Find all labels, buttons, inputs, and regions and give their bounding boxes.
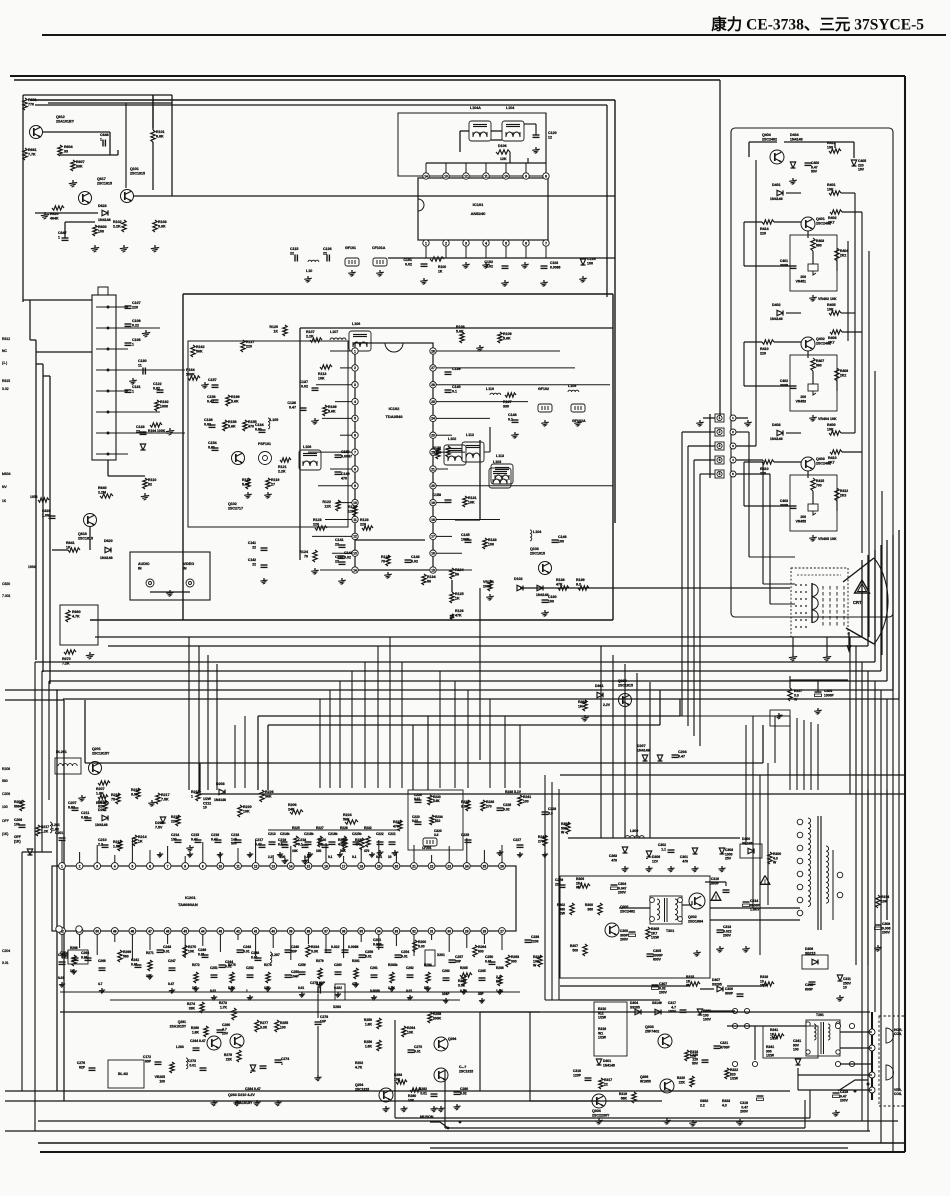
wire [36, 351, 92, 353]
capacitor C207 [72, 807, 79, 809]
node junction circles [732, 1008, 737, 1013]
svg-text:C216b: C216b [304, 832, 314, 836]
transformer T302 flyback [797, 819, 803, 825]
ground [371, 852, 373, 854]
svg-text:18: 18 [431, 518, 435, 522]
svg-text:13: 13 [444, 175, 448, 179]
wire riser x480 [479, 588, 481, 760]
svg-text:1K: 1K [455, 597, 460, 601]
svg-text:C210: C210 [98, 838, 107, 842]
ground [61, 982, 63, 984]
svg-text:4: 4 [485, 242, 487, 246]
resistor R280 [410, 1088, 421, 1092]
capacitor C244c [193, 1047, 200, 1049]
resistor R307 [583, 944, 587, 956]
wire stage box [790, 475, 837, 531]
svg-text:C262: C262 [406, 966, 414, 970]
svg-text:R122: R122 [322, 500, 331, 504]
potentiometer VR455 [808, 504, 818, 511]
svg-text:4.7K: 4.7K [72, 615, 80, 619]
wire junction links [727, 1025, 806, 1027]
ground [812, 535, 814, 537]
svg-text:3.3K: 3.3K [260, 1025, 268, 1029]
coil L104b [530, 530, 532, 541]
svg-text:1N4148: 1N4148 [100, 556, 113, 560]
capacitor C262 [407, 974, 414, 976]
svg-text:康力 CE-3738、三元 37SYCE-5: 康力 CE-3738、三元 37SYCE-5 [711, 15, 924, 34]
node dots [447, 1127, 450, 1130]
diode D103 [542, 586, 544, 591]
svg-text:28: 28 [483, 929, 487, 933]
svg-text:IC201: IC201 [185, 895, 196, 900]
svg-text:300P: 300P [780, 383, 789, 387]
svg-text:50V: 50V [231, 842, 238, 846]
resistor R300b [598, 903, 602, 915]
svg-text:C252: C252 [246, 966, 254, 970]
svg-text:43: 43 [219, 929, 223, 933]
wire stage links [786, 432, 801, 434]
capacitor C255 [342, 949, 349, 951]
svg-text:4700P: 4700P [720, 1045, 731, 1049]
box left small [68, 950, 88, 964]
svg-text:1: 1 [61, 864, 63, 868]
ground [747, 420, 749, 422]
svg-text:R192: R192 [160, 400, 169, 404]
svg-text:0.1: 0.1 [352, 855, 357, 859]
svg-text:W1655: W1655 [640, 1079, 651, 1083]
svg-text:16V: 16V [858, 168, 865, 172]
wire [125, 103, 127, 188]
capacitor C216b [305, 841, 312, 843]
svg-text:1: 1 [132, 343, 134, 347]
wire bus bottom 2 [5, 1100, 662, 1102]
wire right box feeds [774, 716, 776, 763]
svg-text:IC101: IC101 [473, 202, 484, 207]
svg-text:100: 100 [523, 799, 529, 803]
ground [463, 989, 465, 991]
resistor R286 [498, 975, 502, 986]
resistor R206 [290, 810, 303, 814]
resistor R107 [310, 338, 322, 342]
resistor R277 [255, 1020, 259, 1032]
capacitor C240 [285, 949, 292, 951]
svg-text:X201: X201 [437, 953, 445, 957]
svg-text:R641: R641 [66, 541, 75, 545]
wire smps box [560, 876, 710, 978]
svg-text:0.01: 0.01 [243, 949, 250, 953]
node X263 [335, 984, 345, 1000]
wire pins left routing [682, 431, 715, 433]
svg-text:200V: 200V [618, 891, 627, 895]
svg-text:X263: X263 [333, 1005, 341, 1009]
svg-text:100: 100 [558, 540, 564, 544]
capacitor C304 [611, 884, 618, 886]
outer border bottom line [40, 1151, 905, 1153]
capacitor C273 [200, 1067, 207, 1069]
svg-text:2.2K: 2.2K [113, 225, 121, 229]
capacitor C213 [269, 841, 276, 843]
capacitor C278 [315, 1021, 322, 1023]
svg-text:C136: C136 [287, 401, 296, 405]
svg-text:1N4148: 1N4148 [95, 823, 108, 827]
capacitor C109 [125, 323, 132, 325]
svg-text:R283b: R283b [388, 963, 398, 967]
resistor R404 [835, 248, 839, 261]
diode D293 [250, 1070, 255, 1072]
svg-text:L104A: L104A [470, 106, 481, 110]
svg-text:56K: 56K [196, 350, 203, 354]
wire right bundle 3 [861, 662, 863, 1121]
svg-text:470: 470 [248, 425, 254, 429]
svg-text:AUDIO: AUDIO [138, 562, 150, 566]
svg-text:R107: R107 [306, 330, 315, 334]
svg-text:22: 22 [252, 562, 256, 566]
svg-text:R660: R660 [72, 610, 81, 614]
capacitor C131 [125, 389, 132, 391]
capacitor C251 [211, 974, 218, 976]
node pin 2 [107, 327, 110, 330]
svg-text:C124: C124 [587, 257, 596, 261]
ground [499, 989, 501, 991]
svg-text:120P: 120P [573, 1073, 582, 1077]
capacitor C225 [465, 839, 472, 841]
svg-text:R225: R225 [292, 826, 300, 830]
svg-text:2SC2482: 2SC2482 [816, 342, 831, 346]
svg-text:1/2W: 1/2W [770, 1037, 779, 1041]
ground [543, 280, 545, 282]
svg-text:D361: D361 [595, 684, 604, 688]
svg-text:R138: R138 [556, 578, 565, 582]
ground [256, 1100, 258, 1102]
svg-text:C156: C156 [207, 395, 216, 399]
capacitor C264 [85, 957, 92, 959]
svg-text:32: 32 [412, 929, 416, 933]
resistor R305 [646, 927, 650, 939]
resistor R320 [690, 1076, 694, 1087]
node D202 [160, 822, 165, 824]
svg-text:C265: C265 [478, 969, 486, 973]
coil L103 box [489, 468, 511, 488]
wire cluster row link [268, 829, 398, 831]
svg-text:2SC1815: 2SC1815 [459, 1069, 473, 1073]
svg-text:W: W [773, 861, 777, 865]
svg-text:CF101A: CF101A [372, 246, 386, 250]
capacitor C311 [838, 980, 843, 982]
diode D620 [110, 548, 112, 553]
svg-text:12: 12 [353, 535, 357, 539]
svg-text:R124: R124 [381, 555, 390, 559]
resistor R20 [98, 795, 108, 799]
svg-text:0.1: 0.1 [452, 390, 457, 394]
svg-text:10K: 10K [468, 501, 475, 505]
ground [409, 995, 411, 997]
capacitor C249 [202, 954, 209, 956]
svg-text:C225: C225 [461, 833, 469, 837]
svg-text:23: 23 [447, 864, 451, 868]
resistor R133 [483, 538, 487, 549]
svg-text:R604: R604 [64, 145, 73, 149]
capacitor C120 [533, 134, 540, 136]
svg-text:C222: C222 [376, 832, 384, 836]
resistor R620 [52, 206, 64, 210]
svg-text:1N4148: 1N4148 [790, 138, 803, 142]
resistor R276 [237, 1050, 241, 1062]
capacitor C139 [445, 371, 452, 373]
ground [267, 492, 269, 494]
wire box B right [606, 105, 608, 297]
svg-text:560: 560 [14, 804, 20, 808]
wire long risers lower left [56, 690, 58, 1091]
ground [699, 420, 701, 422]
svg-text:R213: R213 [113, 840, 122, 844]
svg-text:GF101: GF101 [345, 246, 356, 250]
svg-text:60P: 60P [145, 1059, 152, 1063]
svg-text:C109: C109 [132, 319, 141, 323]
svg-text:Q102: Q102 [228, 502, 237, 506]
wire box B top [35, 104, 607, 106]
capacitor C154 [212, 447, 219, 449]
resistor R120 [283, 325, 287, 336]
capacitor C215 [195, 839, 202, 841]
ground [403, 1106, 405, 1108]
coil L107 [330, 338, 346, 340]
svg-text:0.01: 0.01 [81, 955, 88, 959]
svg-text:R661: R661 [28, 148, 37, 152]
resistor R216 [116, 793, 120, 804]
wire [491, 130, 502, 132]
svg-text:38: 38 [307, 929, 311, 933]
svg-text:27: 27 [500, 929, 504, 933]
wire vertical x720 top [719, 80, 721, 418]
svg-text:9: 9 [202, 864, 204, 868]
capacitor C148 [512, 419, 519, 421]
resistor R229 [343, 838, 347, 850]
svg-text:1/2W: 1/2W [598, 1036, 607, 1040]
connector tuner block [92, 295, 116, 460]
svg-text:100: 100 [98, 230, 104, 234]
svg-text:M634: M634 [2, 472, 11, 476]
svg-text:34: 34 [377, 929, 381, 933]
resistor R410 [762, 340, 774, 344]
capacitor C204 [672, 754, 679, 756]
svg-text:33K: 33K [189, 1006, 196, 1010]
coil DL201 [55, 758, 81, 774]
svg-text:10K: 10K [827, 188, 834, 192]
ground [465, 262, 467, 264]
ground [839, 995, 841, 997]
svg-text:C263: C263 [442, 969, 450, 973]
svg-text:10K: 10K [318, 377, 325, 381]
ground [387, 572, 389, 574]
svg-text:0.01: 0.01 [189, 1063, 196, 1067]
svg-text:C620: C620 [2, 582, 10, 586]
ground [379, 850, 381, 852]
wire tuner top rail [23, 94, 172, 96]
ground [485, 262, 487, 264]
resistor R134 [422, 574, 426, 585]
svg-text:2: 2 [719, 430, 721, 434]
svg-text:12V: 12V [652, 859, 659, 863]
svg-text:4: 4 [114, 864, 116, 868]
diode D201 [107, 816, 109, 821]
wire [568, 837, 740, 839]
resistor R122 [353, 505, 357, 516]
svg-text:NV: NV [2, 485, 7, 489]
CRT dashed inner top [797, 574, 841, 576]
wire mid bus 1 [95, 636, 862, 638]
box sub tuner [408, 790, 463, 850]
svg-text:100: 100 [14, 822, 20, 826]
ground [445, 998, 447, 1000]
wire [430, 1122, 448, 1128]
wire deflection bus 2 [430, 1147, 848, 1149]
ground [309, 852, 311, 854]
svg-text:R134: R134 [427, 575, 436, 579]
svg-text:R118: R118 [242, 478, 250, 482]
capacitor C238 [525, 939, 532, 941]
svg-text:100: 100 [280, 1025, 286, 1029]
resistor R264 [402, 1026, 406, 1037]
svg-text:(1K): (1K) [2, 832, 8, 836]
ground [499, 850, 501, 852]
resistor R407 [811, 358, 815, 371]
svg-text:14: 14 [353, 568, 357, 572]
svg-text:15: 15 [307, 864, 311, 868]
svg-text:25: 25 [431, 400, 435, 404]
ground [719, 946, 721, 948]
capacitor C313 [717, 929, 724, 931]
svg-text:CRT: CRT [853, 600, 862, 605]
node pin circle [730, 443, 736, 449]
resistor R281 [354, 968, 358, 979]
svg-text:R405: R405 [827, 303, 836, 307]
resistor R268 [72, 955, 76, 966]
svg-text:31: 31 [430, 929, 434, 933]
wire mid bus 10 [85, 762, 763, 764]
svg-text:3.3K: 3.3K [131, 793, 139, 797]
wire mid bus 11 [200, 793, 905, 795]
ground [231, 986, 233, 988]
svg-text:R607: R607 [76, 160, 85, 164]
ground [72, 180, 74, 183]
svg-text:0.02: 0.02 [2, 387, 9, 391]
svg-text:7.7K: 7.7K [28, 153, 36, 157]
svg-text:C141: C141 [335, 538, 344, 542]
svg-text:100K: 100K [186, 373, 195, 377]
resistor R274b [200, 1002, 204, 1013]
CRT warning triangle [855, 580, 870, 593]
resistor R213 [118, 840, 122, 851]
svg-text:17: 17 [342, 864, 346, 868]
svg-text:0.01: 0.01 [58, 976, 64, 980]
svg-text:1: 1 [100, 138, 102, 142]
ground [132, 378, 134, 380]
wire risers right cluster [600, 646, 602, 838]
capacitor C319b [833, 1092, 840, 1094]
ground [189, 852, 191, 854]
svg-text:10K: 10K [408, 1098, 415, 1102]
svg-text:22: 22 [335, 560, 339, 564]
svg-text:0.01: 0.01 [412, 819, 418, 823]
svg-text:Q404: Q404 [762, 133, 771, 137]
wire yoke links [840, 1031, 872, 1033]
IC IC102 TDA3540 [355, 343, 433, 570]
outer border second top line [14, 79, 720, 81]
svg-text:25V: 25V [725, 857, 732, 861]
svg-text:1000: 1000 [160, 405, 168, 409]
resistor R600 [93, 225, 97, 236]
svg-text:36K: 36K [265, 795, 272, 799]
CRT socket dots [795, 584, 797, 586]
svg-text:100: 100 [488, 543, 494, 547]
svg-text:2W: 2W [560, 912, 566, 916]
svg-text:5.6K: 5.6K [503, 337, 511, 341]
resistor R130 [436, 448, 440, 459]
svg-text:22K: 22K [226, 1057, 233, 1061]
svg-text:C211: C211 [81, 811, 89, 815]
svg-text:C204: C204 [678, 750, 687, 754]
ground [123, 245, 125, 248]
svg-text:62: 62 [148, 483, 152, 487]
capacitor C204b [72, 957, 79, 959]
capacitor C648 [102, 140, 104, 147]
resistor R227 [318, 836, 322, 847]
ground [739, 1119, 741, 1121]
wire [150, 591, 190, 593]
transistor Q402 [801, 337, 815, 351]
svg-text:1/2W: 1/2W [730, 1077, 739, 1081]
svg-text:R620: R620 [50, 212, 59, 216]
capacitor C261 [371, 974, 378, 976]
ground [624, 866, 626, 868]
resistor R414 [762, 220, 774, 224]
svg-text:L107: L107 [330, 330, 338, 334]
ground [379, 270, 381, 272]
svg-text:2SC1815: 2SC1815 [97, 182, 112, 186]
node R231 [398, 820, 402, 831]
resistor R164 [188, 376, 200, 380]
svg-text:Q303: Q303 [645, 1025, 654, 1029]
capacitor C214b [281, 841, 288, 843]
svg-text:49: 49 [113, 929, 117, 933]
ground [44, 212, 46, 215]
node X201 [425, 950, 435, 966]
svg-text:6: 6 [525, 242, 527, 246]
wire connector strip [709, 414, 711, 478]
capacitor C321 [714, 1045, 721, 1047]
svg-text:Q612: Q612 [56, 115, 65, 119]
capacitor C130 [142, 368, 144, 375]
svg-text:3.3K: 3.3K [158, 225, 166, 229]
svg-text:1N4148: 1N4148 [637, 749, 650, 753]
svg-text:700: 700 [816, 483, 822, 487]
ground [648, 866, 650, 868]
resistor R256 [377, 1040, 381, 1051]
svg-text:100V: 100V [703, 1018, 712, 1022]
svg-text:VR101: VR101 [483, 580, 494, 584]
svg-text:630V: 630V [653, 958, 662, 962]
ground [584, 715, 586, 717]
resistor R670 [64, 650, 76, 654]
svg-text:C204: C204 [2, 949, 10, 953]
ground [144, 493, 146, 496]
wire IF box right [612, 294, 614, 620]
svg-text:7: 7 [167, 864, 169, 868]
svg-text:470: 470 [341, 477, 347, 481]
svg-text:5.6K: 5.6K [231, 400, 239, 404]
potentiometer VR451 [808, 264, 818, 271]
capacitor C136 [300, 407, 307, 409]
